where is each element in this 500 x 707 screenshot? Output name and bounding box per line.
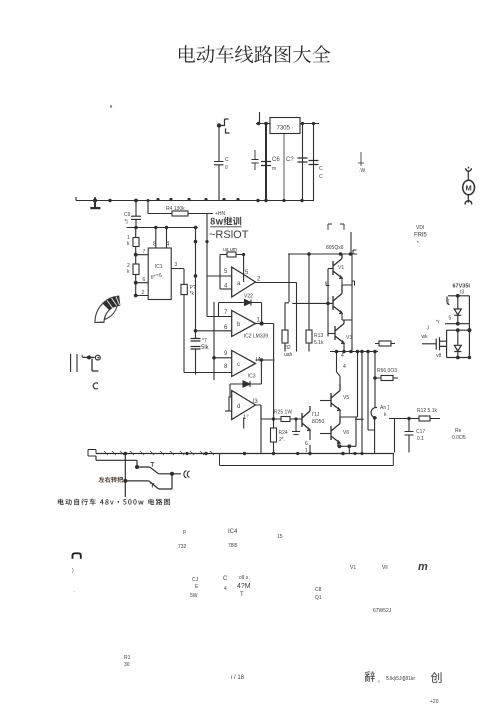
wire x357.5 box (356, 352, 358, 447)
diode VD2 (245, 300, 252, 306)
svg-text:*k: *k (190, 291, 195, 297)
capacitor C7a (298, 158, 308, 162)
wire a +in (207, 275, 232, 277)
wire V6 emitter (337, 442, 356, 447)
svg-text:V5: V5 (343, 395, 349, 401)
op-amp a (232, 267, 256, 297)
wire thick input rail (265, 124, 267, 201)
node a out dot (242, 253, 245, 256)
connector circle1 (95, 355, 100, 360)
wire mosfet drain leg (446, 330, 448, 357)
label 辭 (365, 671, 375, 682)
node R12 dot (407, 417, 410, 420)
stray dot (110, 105, 112, 107)
resistor R212 (282, 330, 288, 343)
IC1 box (148, 248, 171, 300)
wire R24 (273, 419, 275, 454)
svg-text:805Qx6: 805Qx6 (326, 245, 344, 251)
svg-text:R25 1W: R25 1W (274, 410, 292, 416)
transistor V6 (331, 417, 340, 444)
svg-text:0: 0 (225, 165, 228, 171)
resistor R24 (271, 428, 277, 442)
node throttle dots (123, 465, 174, 483)
tick T1 (150, 463, 154, 467)
svg-text:R66 0O3: R66 0O3 (377, 368, 397, 374)
text caption (58, 499, 170, 506)
transistor V13 (302, 406, 310, 431)
svg-text:C6: C6 (272, 157, 280, 163)
svg-text:wk: wk (422, 334, 429, 340)
svg-text:FRl5: FRl5 (414, 233, 427, 239)
svg-text:*7: *7 (202, 338, 207, 344)
wire left pair (71, 354, 77, 372)
svg-text:Re: Re (455, 428, 462, 434)
svg-text:.: . (74, 588, 75, 594)
svg-text:+HN: +HN (215, 211, 226, 217)
svg-text:An ]: An ] (380, 405, 390, 411)
wire d output (256, 405, 262, 419)
resistor R12 5.1k (419, 416, 430, 421)
wire top rail (448, 295, 469, 297)
transistor V2 (333, 285, 342, 314)
ground bar (90, 207, 100, 209)
mosfet V8 (436, 337, 446, 350)
wire D1 (457, 296, 459, 324)
wire V5 base (320, 400, 331, 402)
tick T2 (150, 484, 154, 488)
node bus junctions (93, 198, 304, 203)
svg-text:p: p (183, 529, 186, 535)
svg-text:*r: *r (436, 320, 440, 326)
svg-text:7: 7 (143, 249, 146, 255)
wire feed line2 (96, 456, 137, 467)
svg-text:lC3: lC3 (248, 374, 256, 380)
throttle arrow (105, 304, 118, 320)
svg-text:30: 30 (124, 662, 130, 668)
diode D2 (454, 345, 461, 351)
capacitor gnd mark (292, 419, 300, 435)
svg-text:5.1k: 5.1k (314, 340, 324, 346)
svg-text:5.lk|i5Ji[]81kr: 5.lk|i5Ji[]81kr (386, 676, 415, 682)
wire d output drop (260, 405, 262, 419)
svg-text:4: 4 (343, 364, 346, 370)
svg-text:4?M: 4?M (237, 583, 251, 590)
resistor Ra feedback (227, 252, 236, 257)
wire mid rail2 (447, 329, 470, 331)
node c out dot (260, 358, 263, 361)
wire c output (256, 359, 275, 361)
capacitor C5 small (252, 150, 259, 170)
capacitor C9 (131, 201, 141, 228)
svg-text:IC4: IC4 (228, 529, 238, 535)
label 。 (378, 681, 380, 683)
wire d out row (261, 419, 302, 454)
wire d feedback diode line (230, 360, 261, 397)
svg-text:V22: V22 (244, 294, 253, 300)
node terminal dot (87, 355, 91, 359)
svg-text:CJ: CJ (192, 577, 199, 583)
resistor R66 (375, 377, 398, 379)
wire x309 drop (308, 254, 310, 330)
wire right rail (468, 296, 470, 358)
svg-text:R12 5.1k: R12 5.1k (417, 408, 438, 414)
wire c -in (184, 372, 232, 374)
svg-text:C17: C17 (416, 429, 425, 435)
wire a -in (220, 288, 232, 290)
wire bus A x195.5 (195, 228, 197, 375)
watermark 8w继训 (210, 217, 241, 226)
transistor V1 (333, 254, 342, 279)
wire V1 base (328, 268, 333, 270)
wire R212 (285, 303, 289, 352)
connector c1 (184, 471, 190, 479)
wire top supply bus (76, 197, 314, 201)
node IC1 supply dots (134, 226, 197, 230)
capacitor C0 on connector line (214, 126, 224, 201)
svg-text:6: 6 (143, 277, 146, 283)
svg-text:732: 732 (178, 544, 187, 550)
node base bus dot (326, 302, 330, 306)
wire pin4 (166, 228, 168, 249)
connector hook J (447, 297, 450, 305)
wire V2 base (292, 302, 333, 304)
svg-text:l3: l3 (253, 399, 258, 405)
wire IC1 supply line (127, 227, 199, 229)
svg-text:R1: R1 (124, 655, 131, 661)
svg-text:*j: *j (125, 219, 128, 225)
svg-text:1°: 1° (243, 415, 249, 421)
ground (94, 197, 96, 207)
wire b output (256, 324, 274, 420)
op-amp d (232, 391, 256, 420)
svg-text:3: 3 (175, 262, 178, 268)
wire V1 emitter chain (342, 278, 355, 286)
wire throttle drop (124, 454, 126, 498)
svg-text:0.0O5: 0.0O5 (452, 435, 466, 441)
throttle grip hatch (107, 297, 120, 309)
7805 regulator box (270, 118, 300, 134)
svg-text:4: 4 (341, 353, 344, 359)
op-amp b (232, 311, 256, 337)
wire D2 (457, 330, 459, 357)
diode D1 (454, 309, 461, 315)
wire x362 drop (361, 352, 363, 454)
wire dots row line (330, 351, 378, 353)
wire mid rail1 (445, 323, 469, 325)
wire bus B x207 (206, 228, 208, 317)
resistor R1 1k (133, 238, 139, 247)
wire R12 row (389, 418, 440, 420)
svg-text:5lk: 5lk (201, 345, 210, 351)
svg-text:c8 s: c8 s (239, 575, 249, 581)
wire c +in (214, 357, 232, 359)
node 7805 rail dots (257, 122, 315, 126)
node connector dot (217, 123, 221, 127)
svg-text:.W: .W (359, 168, 365, 174)
capacitor C17 (405, 419, 414, 453)
svg-text:ι / 18: ι / 18 (231, 675, 245, 681)
svg-text:V6: V6 (343, 430, 349, 436)
transistor V5 (331, 384, 340, 411)
node emitter row dots (338, 444, 352, 448)
wire b -in (196, 330, 232, 332)
connector L top (219, 119, 230, 133)
svg-text:uah: uah (284, 352, 293, 358)
label 创 (431, 672, 442, 683)
wire x394 up (394, 419, 396, 453)
svg-text:15: 15 (277, 534, 283, 540)
diode VD3 (243, 381, 250, 387)
svg-text:67W52J: 67W52J (373, 608, 392, 614)
throttle grip end cap (95, 321, 104, 323)
wire V5 emitter (340, 410, 358, 417)
transistor V3 (335, 320, 344, 344)
wire d out stub (243, 418, 245, 429)
wire lower box line2 (220, 454, 394, 466)
svg-text:C?: C? (286, 157, 294, 163)
switch contact k (371, 407, 377, 417)
svg-text:v8: v8 (436, 353, 442, 359)
node b out dot (260, 321, 264, 325)
wire b feedback diode line (219, 303, 262, 324)
title 电动车线路图大全 (179, 45, 330, 63)
svg-text:2: 2 (142, 290, 145, 296)
svg-text:C9: C9 (124, 212, 131, 218)
svg-text:C: C (223, 576, 228, 582)
node H5 dots (307, 252, 352, 256)
svg-text:lC1: lC1 (155, 264, 163, 270)
svg-text:8O50: 8O50 (312, 419, 324, 425)
svg-text:m: m (272, 166, 276, 172)
wire R13 bottom (308, 343, 310, 352)
svg-text:ua um: ua um (223, 247, 237, 253)
connector hook bottom (465, 200, 472, 205)
wire stub above (259, 112, 261, 124)
wire joint (355, 418, 364, 420)
svg-text:V1: V1 (338, 265, 344, 271)
wire throttle branch2 (125, 474, 172, 489)
wire V3 base (328, 333, 335, 335)
svg-text:R13: R13 (314, 333, 323, 339)
svg-text:M: M (465, 184, 471, 193)
wire motor bottom (467, 195, 469, 200)
resistor P1 (181, 284, 187, 294)
node bus dots (194, 240, 216, 360)
wire 7805 gnd leg (283, 134, 285, 201)
wire pin3 out (171, 269, 184, 285)
svg-text:5W: 5W (190, 593, 198, 599)
wire left chain (136, 228, 149, 296)
capacitor C7b (309, 161, 319, 165)
node switch dot (373, 416, 377, 420)
svg-text:6: 6 (305, 441, 308, 447)
glyph bracket (73, 553, 81, 558)
wire x368 drop (368, 352, 375, 431)
motor M1 (463, 180, 475, 194)
op-amp c (232, 351, 256, 377)
wire d -in (225, 410, 232, 412)
wire hatched bus main (96, 453, 394, 455)
wire 7805 left rail (256, 123, 319, 125)
svg-text:m: m (418, 561, 428, 573)
wire x375 drop R66 (374, 352, 376, 454)
node dots lower (341, 376, 377, 455)
connector circle1 dot (97, 357, 99, 359)
wire V5 collector top (337, 352, 341, 385)
wire V3 emitter (343, 343, 345, 352)
svg-text:C: C (319, 166, 323, 172)
resistor Rh horizontal (375, 343, 395, 345)
svg-text:l4: l4 (256, 358, 261, 364)
svg-text:l'1J: l'1J (312, 412, 320, 418)
connector hook top (466, 167, 472, 171)
node driver dots row (335, 350, 377, 354)
wire x289 drop (288, 254, 290, 302)
wire V13 emitter (309, 430, 311, 454)
label 左右转把 (99, 477, 124, 483)
svg-text:0.1: 0.1 (417, 436, 424, 442)
wire x296.5 a-out drop (296, 283, 298, 352)
wire L bend (92, 359, 99, 371)
svg-text:Vll: Vll (382, 565, 388, 571)
svg-text:d: d (237, 404, 240, 410)
svg-text:78l5: 78l5 (228, 543, 238, 549)
resistor R25 1W (281, 417, 290, 422)
connector circle2 (93, 383, 98, 389)
wire emitter row drop (348, 446, 350, 453)
svg-text:4: 4 (224, 586, 227, 592)
throttle grip dark segment (103, 296, 120, 310)
wire output rail2 (313, 124, 315, 201)
resistor R2 2k (133, 264, 139, 275)
bus hatch ticks (104, 451, 214, 455)
wire terminal row (83, 356, 95, 358)
wire base bus (327, 269, 329, 337)
wire pin8 (155, 228, 157, 249)
wire bus C x214 (213, 302, 215, 380)
wire bottom rail (447, 357, 470, 359)
capacitor C7f on bus A (191, 339, 201, 350)
svg-text:7305 ·: 7305 · (276, 126, 293, 132)
capacitor C6 (261, 162, 271, 166)
svg-text:C: C (319, 174, 323, 180)
svg-text:5: 5 (449, 316, 452, 322)
svg-text:2l2: 2l2 (284, 345, 291, 351)
svg-text:V1: V1 (350, 565, 356, 571)
svg-text:~RSlOT: ~RSlOT (209, 229, 249, 241)
connector hook base bus (326, 282, 330, 286)
svg-text:lC2 LM339: lC2 LM339 (244, 334, 268, 340)
node R25 dots (272, 417, 298, 420)
watermark underline (210, 226, 242, 228)
wire H5 driver top (288, 232, 357, 254)
wire bus left step (88, 450, 96, 457)
wire +HN stub (207, 214, 213, 228)
svg-text:2*.: 2*. (279, 437, 285, 443)
svg-text:C8: C8 (315, 587, 322, 593)
svg-text:+20: +20 (430, 699, 439, 705)
node bus dots (124, 452, 357, 456)
svg-text:C: C (225, 157, 229, 163)
wire throttle branch1 (137, 467, 181, 474)
wire V2 emitter (342, 313, 352, 320)
wire x352 drop (351, 254, 353, 352)
wire a feedback loop (220, 255, 244, 290)
tick (81, 355, 83, 358)
svg-text:T: T (240, 592, 244, 598)
svg-text:V3: V3 (346, 335, 352, 341)
wire a output (256, 282, 297, 284)
svg-text:R4 130k: R4 130k (166, 206, 185, 212)
svg-text:t3: t3 (460, 290, 464, 296)
wire gate (422, 343, 436, 345)
connector hooks above H5 (328, 224, 344, 230)
wire output rail (302, 124, 304, 201)
throttle grip band (95, 296, 120, 322)
node mosfet dots (456, 294, 472, 360)
wire b +in (207, 316, 232, 318)
svg-text:VDl: VDl (416, 225, 424, 231)
connector +W mark (358, 152, 364, 166)
node left chain dots (134, 253, 138, 298)
resistor R4 130k (148, 201, 207, 214)
tick under FR15 (417, 241, 419, 243)
wire d +in (229, 397, 232, 412)
svg-text:c: c (237, 362, 240, 368)
wire to motor (467, 172, 469, 181)
wire below P1 (183, 295, 185, 373)
svg-text:Q1: Q1 (315, 595, 322, 601)
svg-text:R24: R24 (279, 430, 288, 436)
resistor R13 5.1k (306, 330, 312, 343)
wire V6 base (320, 433, 331, 435)
